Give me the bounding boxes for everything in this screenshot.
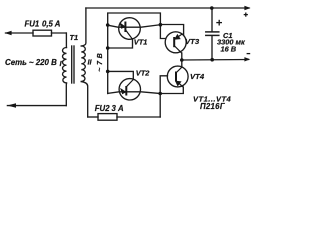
svg-text:VT4: VT4 xyxy=(190,72,205,81)
svg-text:~ 7 В: ~ 7 В xyxy=(95,53,104,72)
VT3 collector diagonal xyxy=(175,46,182,53)
wire VT2 through line xyxy=(108,92,161,94)
capacitor C1 bottom plate xyxy=(206,34,219,36)
VT1 bar xyxy=(124,22,126,33)
transformer core line 2 xyxy=(73,46,75,83)
wire FU2 to bridge xyxy=(117,116,160,118)
wire VT4 base xyxy=(160,76,167,94)
VT1 emitter arrow xyxy=(120,23,126,29)
svg-text:3 А: 3 А xyxy=(112,104,125,113)
wire VT3 collector down xyxy=(181,53,183,60)
svg-text:T1: T1 xyxy=(70,33,79,42)
node dot AC2 xyxy=(158,92,162,96)
VT2 bar xyxy=(125,86,127,96)
VT1 collector diagonal xyxy=(126,31,133,40)
wire T1 primary bottom lead xyxy=(65,83,67,106)
wire secondary top to top rail xyxy=(81,8,86,46)
node dot B xyxy=(159,23,163,27)
wire left rail node A xyxy=(107,26,109,94)
VT2 emitter arrow xyxy=(121,89,126,94)
wire node B down to VT3 base xyxy=(160,25,165,39)
arrow mains top xyxy=(5,31,12,36)
VT3 bar xyxy=(173,37,175,47)
fuse FU2 xyxy=(98,114,117,121)
wire VT2 top to rail xyxy=(108,71,134,79)
transistor VT3 xyxy=(165,32,186,53)
wire FU1 to T1 primary top xyxy=(65,33,67,48)
wire minus rail xyxy=(182,59,249,62)
node dot rail-VT2 top xyxy=(106,70,110,74)
wire VT4 emitter down xyxy=(160,87,183,94)
wire VT4 top lead xyxy=(181,60,183,67)
transistor VT2 xyxy=(119,79,140,100)
minus sign output xyxy=(247,53,251,55)
wire VT1 collector to rail xyxy=(108,39,133,48)
node dot VT3-VT4 minus xyxy=(180,58,184,62)
svg-text:0,5 A: 0,5 A xyxy=(42,19,61,28)
plus sign output xyxy=(244,14,248,16)
transistor internals xyxy=(120,22,183,96)
fuse FU1 xyxy=(33,30,52,36)
plus sign near C1 xyxy=(216,13,250,54)
node dot C1 bottom xyxy=(210,58,214,62)
transistor VT1 xyxy=(119,18,141,40)
transformer T1 primary winding xyxy=(63,48,67,83)
capacitor C1 top lead xyxy=(211,8,213,31)
arrow output minus xyxy=(244,57,250,61)
VT4 bar xyxy=(175,72,177,82)
svg-text:П216Г: П216Г xyxy=(200,102,226,111)
VT3 emitter diagonal and arrow xyxy=(175,34,183,40)
svg-text:II: II xyxy=(88,57,93,66)
wire top rail (+ output) xyxy=(86,7,249,9)
capacitor C1 bottom lead xyxy=(211,36,213,60)
VT4 emitter diagonal and arrow xyxy=(176,81,183,87)
wire mains top lead to FU1 xyxy=(6,32,34,34)
wire mains bottom xyxy=(7,105,66,107)
wire node B to VT3 top xyxy=(160,25,183,36)
svg-text:16 В: 16 В xyxy=(221,45,237,54)
VT4 collector diagonal xyxy=(176,67,181,72)
capacitor C1 plates xyxy=(206,31,219,33)
svg-text:FU2: FU2 xyxy=(95,104,110,113)
svg-text:FU1: FU1 xyxy=(25,19,40,28)
svg-text:VT3: VT3 xyxy=(185,37,200,46)
wire FU1 to transformer xyxy=(52,32,67,34)
wire secondary bottom lead xyxy=(81,82,87,118)
svg-text:VT2: VT2 xyxy=(136,68,150,77)
svg-text:Сеть ~ 220 В: Сеть ~ 220 В xyxy=(5,58,57,67)
transformer T1 secondary winding xyxy=(81,46,85,81)
wire FU2 to bridge AC2 node xyxy=(159,94,161,118)
VT2 collector diagonal xyxy=(127,80,134,87)
arrow output plus xyxy=(244,6,250,10)
node dot rail-VT1 collector xyxy=(106,46,110,50)
wire VT1 base/emitter through line xyxy=(108,25,161,28)
arrow mains bottom xyxy=(7,103,16,108)
node dot C1 top xyxy=(210,6,214,10)
transformer core xyxy=(71,46,73,83)
wire to fuse FU2 xyxy=(88,116,98,118)
transistor VT4 xyxy=(167,66,188,87)
wire over-bridge jumper xyxy=(108,13,161,26)
node dot rail-VT1 base xyxy=(106,23,110,27)
svg-text:VT1: VT1 xyxy=(134,37,148,46)
